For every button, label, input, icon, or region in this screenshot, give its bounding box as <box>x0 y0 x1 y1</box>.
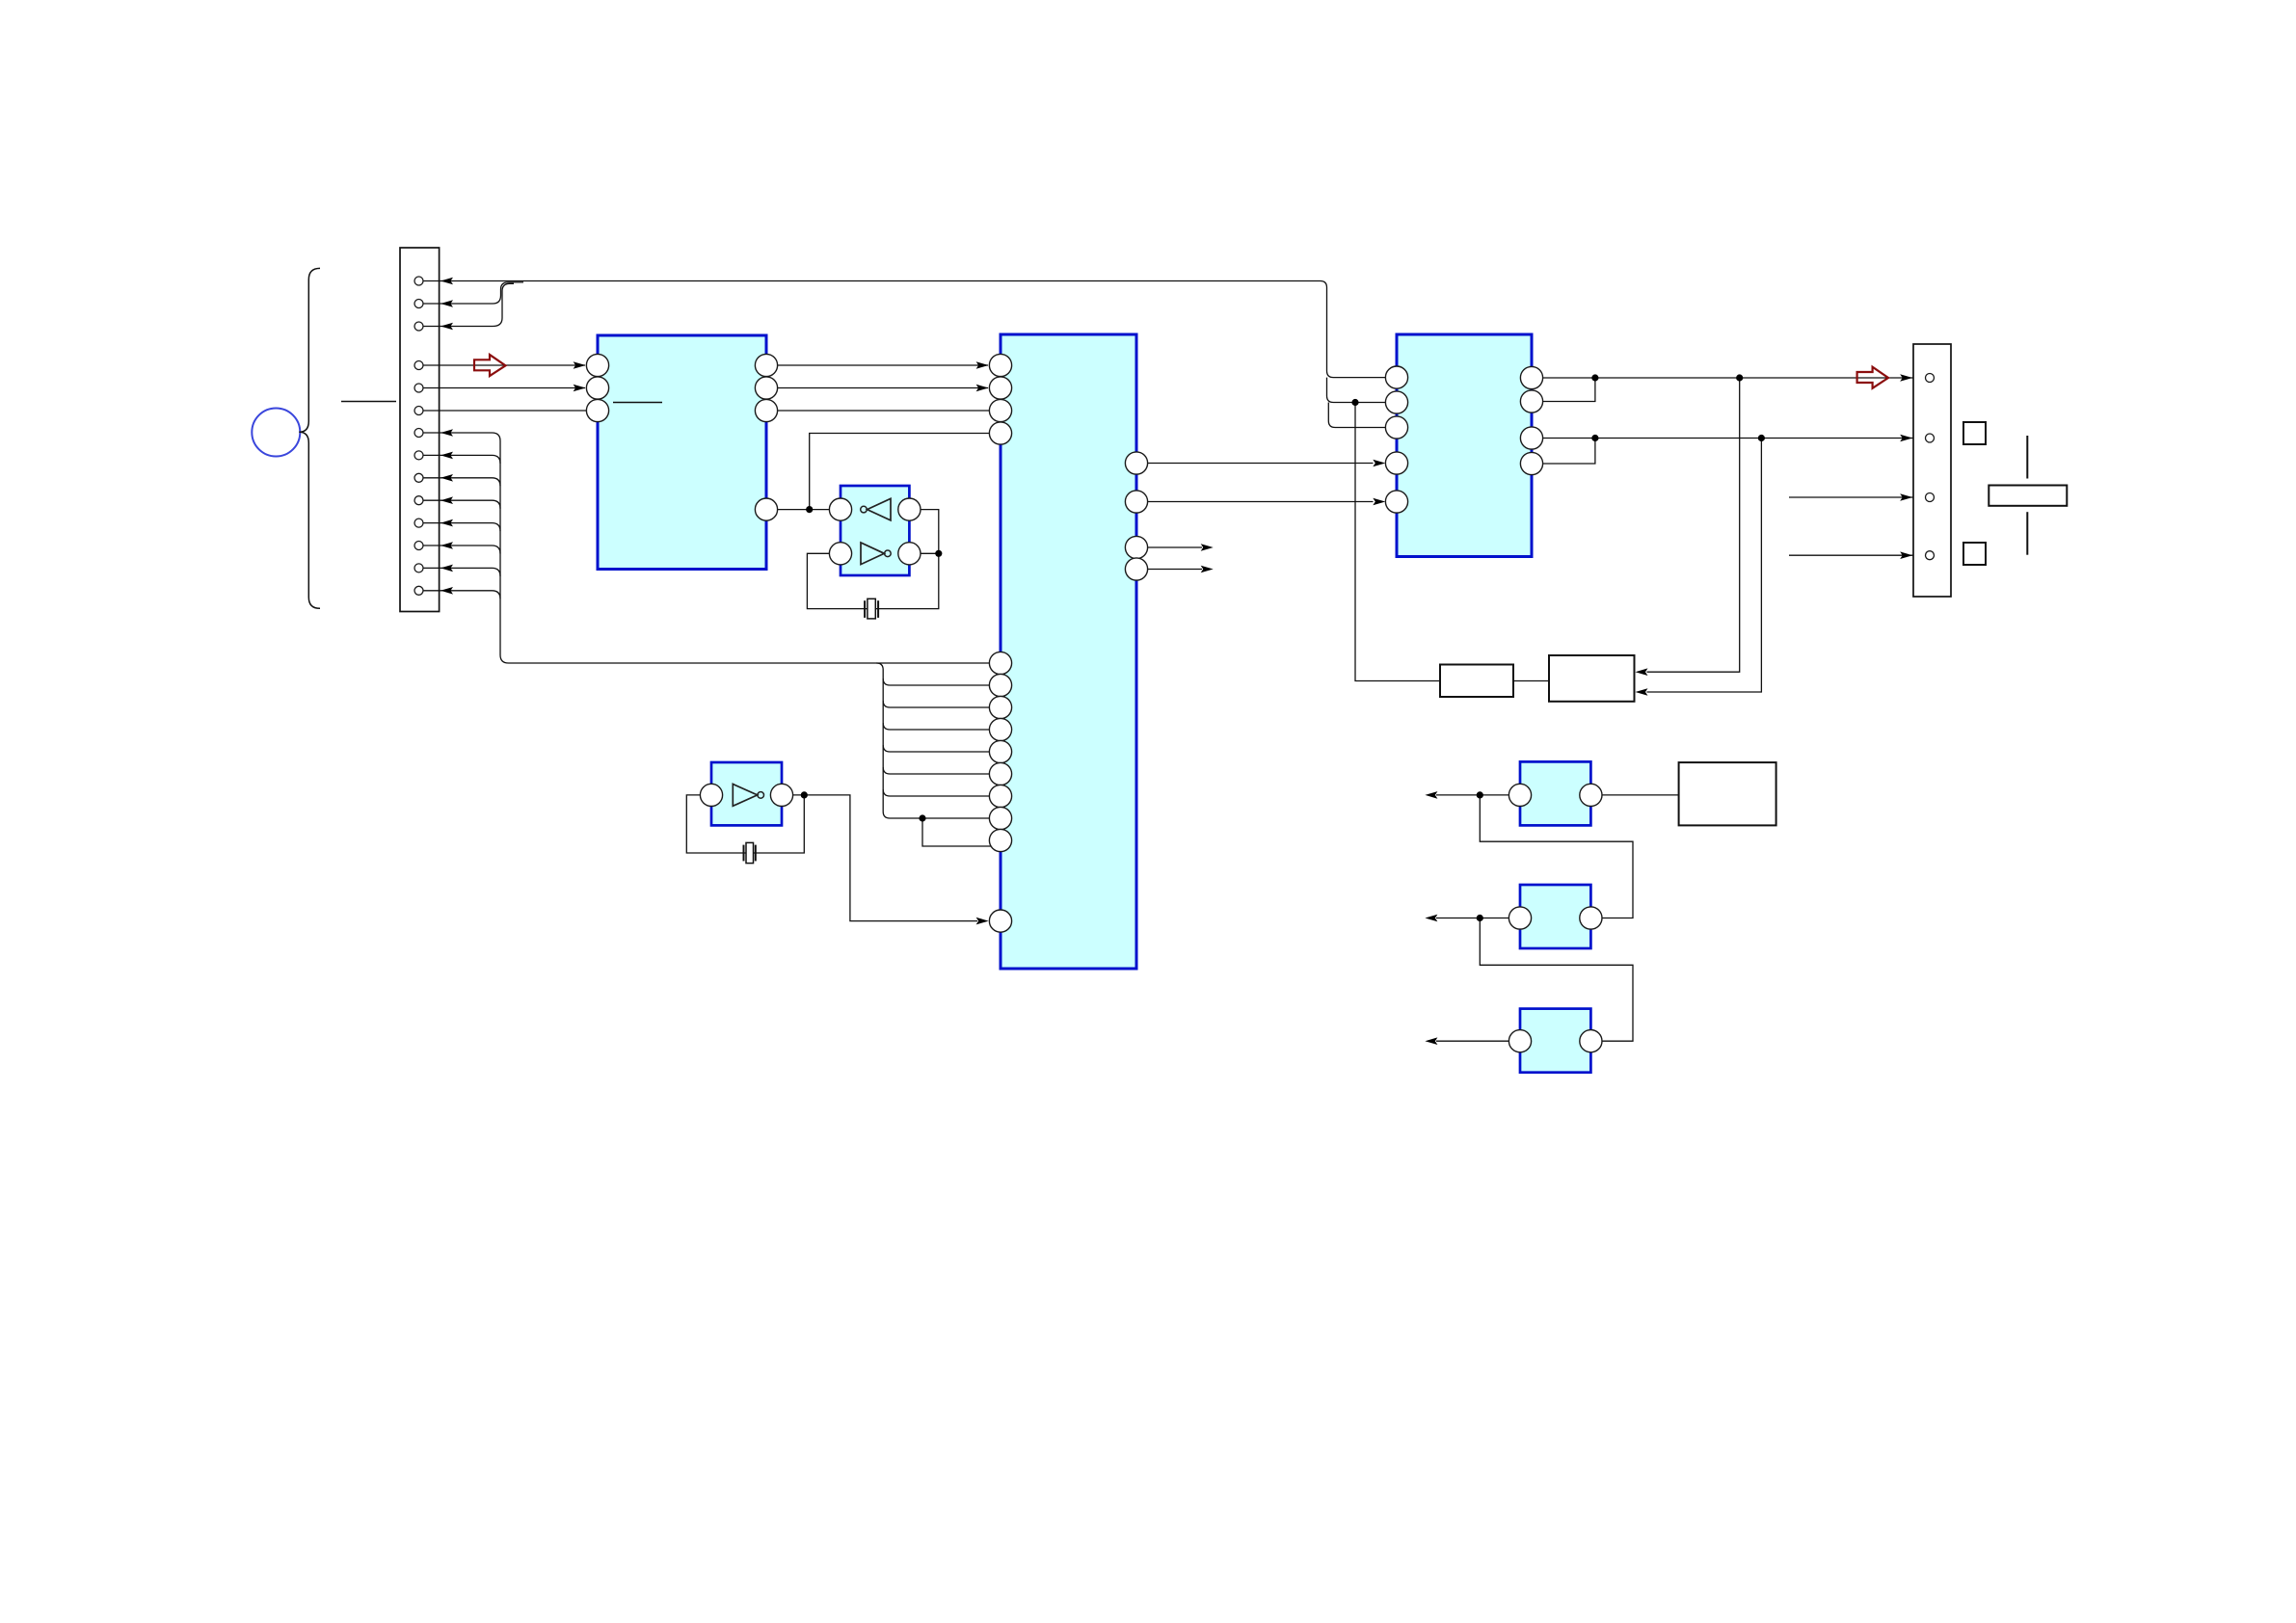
pin CN1.9 <box>414 473 423 482</box>
pin U2.L5 <box>989 652 1011 674</box>
arrow into U1.L2 <box>574 385 586 392</box>
wire U2.R1 to U3.P4 <box>1148 463 1374 465</box>
pin U3.R3 <box>1520 427 1542 449</box>
pin U2.L10 <box>989 762 1011 785</box>
wire S1 output left <box>1436 794 1508 796</box>
wire CN1 pin10 hook <box>423 500 500 509</box>
switch body <box>1989 486 2067 506</box>
wire X2 feedback loop <box>686 795 804 853</box>
junction dot J2 <box>1736 374 1743 381</box>
pin CN1.4 <box>414 361 423 370</box>
switch S2 body <box>1520 885 1590 948</box>
wire CN2 pin3 stub <box>1789 496 1925 498</box>
wire X1 feedback loop <box>807 510 938 609</box>
IC U2 body <box>1001 334 1136 969</box>
pin U1.L3 <box>586 399 608 421</box>
arrow into CN2.1 <box>1900 374 1912 382</box>
wire Wbox to S1 <box>1602 794 1679 796</box>
arrow into CN1 row 9 <box>441 542 453 549</box>
wire U1.R2 to U2.L2 <box>778 387 988 389</box>
crystal Y1 <box>865 599 878 619</box>
pin U1.R4 <box>755 498 777 520</box>
pin X2 out <box>770 784 792 806</box>
bus fan vertical <box>876 663 883 811</box>
pin U2.L12 <box>989 807 1011 829</box>
wire U2.R3 stub <box>1148 546 1202 548</box>
pin S3.R <box>1580 1030 1602 1052</box>
oscillator X1 body <box>841 486 909 575</box>
wire CN1 pin5 to IC1 <box>423 387 585 389</box>
net stub line <box>341 401 396 403</box>
inverter X2 (right pointing) <box>733 785 757 807</box>
pin U2.L7 <box>989 696 1011 718</box>
bus branch L12 <box>883 811 989 818</box>
pin CN1.11 <box>414 519 423 527</box>
wire U2.R2 to U3.P5 <box>1148 501 1374 503</box>
pin U3.P5 <box>1385 491 1407 513</box>
wire CN1 pin6 to IC1 <box>423 410 586 412</box>
red arrow RA1 <box>474 355 506 376</box>
junction dot J1 <box>1591 374 1598 381</box>
pin U2.L13 <box>989 829 1011 851</box>
bus branch L8 <box>883 723 989 730</box>
wire CN1 pin2 branch <box>423 282 523 304</box>
pin U2.R3 <box>1125 536 1147 558</box>
wire net A down to R2 box <box>1647 378 1740 672</box>
wire R1 to R2 <box>1513 680 1549 682</box>
pin U3.R4 <box>1520 452 1542 474</box>
wire net B down to R2 box <box>1647 439 1762 693</box>
arrow S1 out <box>1425 791 1437 799</box>
wire U1.R3 to U2.L3 <box>778 410 990 412</box>
pin U3.P1 <box>1385 366 1407 388</box>
brace <box>299 268 320 608</box>
inverter X1a (left pointing) <box>868 498 891 520</box>
pin U2.L8 <box>989 718 1011 740</box>
wire S3 output left <box>1436 1040 1508 1042</box>
pin U1.R1 <box>755 354 777 376</box>
wire CN1 pin13 hook <box>423 568 500 576</box>
pin CN1.10 <box>414 496 423 505</box>
pin U2.L11 <box>989 785 1011 807</box>
bus branch L10 <box>883 767 989 774</box>
wire X1 node up to U2.L4 <box>810 434 990 510</box>
pin S2.R <box>1580 907 1602 929</box>
wire bundle to U3.P3 <box>1328 403 1385 428</box>
pin U2.L2 <box>989 377 1011 399</box>
pin CN1.3 <box>414 322 423 331</box>
pin U1.L1 <box>586 354 608 376</box>
wire U3.R4 join <box>1543 439 1595 465</box>
bus long horizontal to U2 <box>509 662 990 664</box>
IC U1 body <box>598 335 766 570</box>
wire CN1 pin1 long top net <box>423 281 1385 378</box>
red arrow RA2 <box>1857 367 1888 388</box>
junction dot X1 output <box>935 550 942 557</box>
cable circle <box>252 409 300 457</box>
arrow into CN1 row 8 <box>441 519 453 527</box>
pin U2.L9 <box>989 740 1011 762</box>
pin U3.P4 <box>1385 452 1407 474</box>
connector CN1 body <box>400 248 440 612</box>
arrow into CN2.4 <box>1900 551 1912 559</box>
arrow into CN1 row 6 <box>441 474 453 482</box>
wire U3.R3 net to CN2 pin2 <box>1543 438 1926 439</box>
inverter X1b (right pointing) <box>861 543 884 565</box>
wire CN1 pin3 branch <box>423 283 514 326</box>
wire S2 output left <box>1436 918 1508 919</box>
pin U1.R3 <box>755 399 777 421</box>
switch S3 body <box>1520 1009 1590 1073</box>
junction dot P2 net <box>1351 399 1358 406</box>
connector CN2 body <box>1913 344 1951 597</box>
pin CN1.7 <box>414 429 423 438</box>
pin U3.R2 <box>1520 390 1542 412</box>
pin U2.R2 <box>1125 491 1147 513</box>
wire U3.R1 net to CN2 pin1 <box>1543 377 1926 379</box>
wire U3.R2 join <box>1543 378 1595 402</box>
pin CN2.4 <box>1926 551 1935 560</box>
wire CN1 pin9 hook <box>423 478 500 487</box>
pin U2.L6 <box>989 674 1011 696</box>
junction dot S2 <box>1477 915 1483 921</box>
arrow into CN1 row 5 <box>441 452 453 460</box>
arrow into U2.L2 <box>976 385 989 392</box>
bus vertical left <box>500 441 509 664</box>
arrow S3 out <box>1425 1037 1437 1045</box>
pin U3.P2 <box>1385 391 1407 413</box>
arrow into CN1 row 11 <box>441 587 453 595</box>
pad square 2 <box>1963 543 1986 565</box>
pad square 1 <box>1963 422 1986 444</box>
pin U2.L14 <box>989 910 1011 932</box>
oscillator X2 body <box>711 762 782 825</box>
pin U1.L2 <box>586 377 608 399</box>
wire X2 output to U2.L14 <box>793 795 977 921</box>
switch lever bottom <box>2026 512 2028 555</box>
arrow into CN1 row 10 <box>441 565 453 572</box>
pin CN1.12 <box>414 542 423 550</box>
arrow into CN2.3 <box>1900 493 1912 501</box>
arrow U2.R3 stub <box>1201 544 1214 551</box>
pin CN2.2 <box>1926 434 1935 442</box>
wire P2 net down to resistor R1 <box>1355 403 1440 681</box>
arrow U2.R4 stub <box>1201 566 1214 573</box>
pin U2.L3 <box>989 399 1011 421</box>
pin CN2.1 <box>1926 374 1935 383</box>
bus branch L7 <box>883 701 989 707</box>
wire S1 jog to S2 <box>1480 795 1633 918</box>
arrow into CN1 row 2 <box>441 300 453 307</box>
pin S1.R <box>1580 784 1602 806</box>
IC U3 body <box>1397 334 1532 557</box>
arrow into CN1 row 3 <box>441 323 453 331</box>
junction dot S1 <box>1477 791 1483 798</box>
junction dot J4 <box>1758 435 1765 441</box>
arrow S2 out <box>1425 915 1437 922</box>
pin U3.P3 <box>1385 416 1407 439</box>
junction dot J3 <box>1591 435 1598 441</box>
arrow into U2.L14 <box>976 918 989 925</box>
arrow into U2.L1 <box>976 361 989 369</box>
switch lever top <box>2026 436 2028 479</box>
arrow into CN1 row 7 <box>441 496 453 504</box>
arrow into R2 box b <box>1636 688 1648 696</box>
arrow into U3.P5 <box>1373 498 1385 506</box>
pin S3.L <box>1508 1030 1531 1052</box>
wire U2.R4 stub <box>1148 569 1202 571</box>
bus branch L11 <box>883 789 989 796</box>
wire CN1 pin4 to IC1 <box>423 364 585 366</box>
pin U2.L1 <box>989 354 1011 376</box>
wire CN1 pin12 hook <box>423 545 500 554</box>
pin U2.L4 <box>989 422 1011 444</box>
wire CN2 pin4 stub <box>1789 554 1925 556</box>
resistor R1 box <box>1440 665 1513 698</box>
pin CN1.13 <box>414 564 423 572</box>
crystal Y2 <box>744 842 756 863</box>
pin X1 out <box>898 543 921 565</box>
wire CN1 pin14 hook <box>423 591 500 599</box>
wire S2 jog to S3 <box>1480 918 1633 1042</box>
IC U1 inner stub <box>613 402 662 404</box>
pin U2.R4 <box>1125 558 1147 580</box>
pin X1 fb <box>898 498 921 520</box>
wire CN1 pin11 hook <box>423 523 500 532</box>
resistor R2 box <box>1549 655 1635 702</box>
wire U1.R4 to X1 input <box>778 509 830 511</box>
pin U1.R2 <box>755 377 777 399</box>
pin S1.L <box>1508 784 1531 806</box>
wire CN1 pin8 hook <box>423 455 500 464</box>
arrow into CN1 row 1 <box>441 278 453 285</box>
arrow into CN1 row 4 <box>441 429 453 437</box>
junction dot X1 input <box>806 506 813 513</box>
junction dot bus L12/L13 <box>919 814 925 821</box>
arrow into CN2.2 <box>1900 435 1912 442</box>
arrow into U1.L1 <box>574 361 586 369</box>
pin CN1.1 <box>414 277 423 285</box>
junction dot X2 output <box>801 791 808 798</box>
pin CN1.2 <box>414 300 423 308</box>
wire bundle to U3.P2 <box>1327 378 1386 403</box>
arrow into R2 box a <box>1636 668 1648 676</box>
wire U1.R1 to U2.L1 <box>778 364 988 366</box>
pin CN1.8 <box>414 451 423 460</box>
pin X1 in <box>829 498 851 520</box>
arrow into U3.P4 <box>1373 460 1385 467</box>
pin S2.L <box>1508 907 1531 929</box>
pin U2.R1 <box>1125 452 1147 474</box>
pin CN1.5 <box>414 384 423 392</box>
pin CN1.14 <box>414 586 423 595</box>
pin X1 in2 <box>829 543 851 565</box>
white box W1 <box>1679 762 1776 825</box>
switch S1 body <box>1520 761 1590 825</box>
pin U3.R1 <box>1520 366 1542 388</box>
pin X2 in <box>700 784 722 806</box>
bus branch L9 <box>883 745 989 752</box>
pin CN2.3 <box>1926 493 1935 502</box>
bus branch L6 <box>883 678 989 685</box>
wire X1 lower output <box>921 552 939 554</box>
wire CN1 pin7 hook <box>423 433 500 441</box>
pin CN1.6 <box>414 407 423 415</box>
bus jog to L13 <box>922 818 992 846</box>
